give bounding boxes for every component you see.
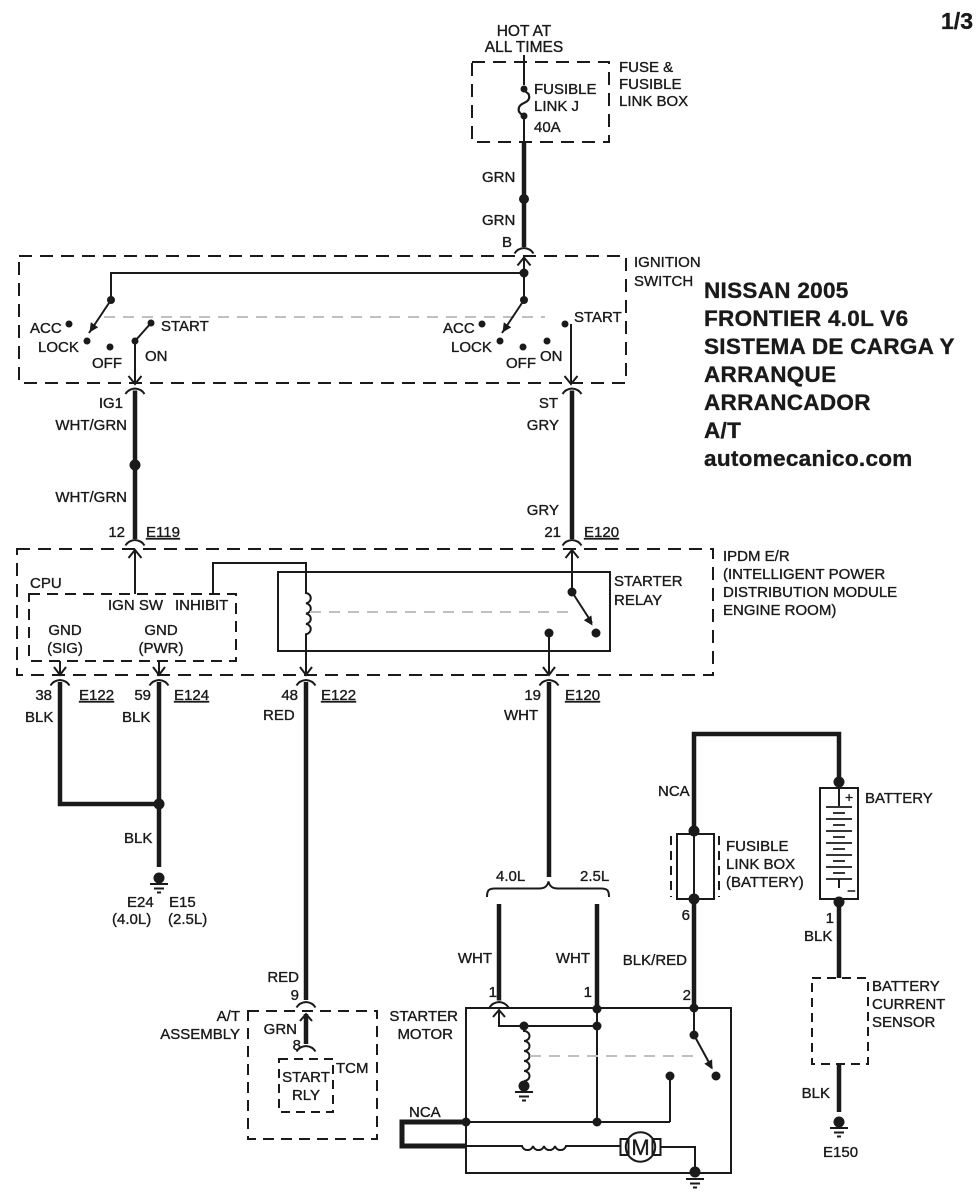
wire BLK battery to sensor <box>837 902 842 978</box>
battery current sensor box <box>812 978 868 1064</box>
svg-text:GND: GND <box>144 622 178 639</box>
svg-text:CURRENT: CURRENT <box>872 996 945 1013</box>
svg-text:ASSEMBLY: ASSEMBLY <box>160 1026 240 1043</box>
node LOCK right <box>497 338 504 345</box>
fuse box FUSE & FUSIBLE LINK BOX <box>472 62 609 142</box>
node OFF right <box>520 344 527 351</box>
wire fusible link to box edge <box>523 119 525 142</box>
starter relay box <box>278 572 610 651</box>
svg-text:21: 21 <box>544 524 561 541</box>
svg-text:DISTRIBUTION MODULE: DISTRIBUTION MODULE <box>723 584 897 601</box>
starter motor box <box>466 1008 731 1173</box>
junction solenoid feed <box>520 1022 529 1031</box>
wire BLK/RED <box>692 899 697 1008</box>
svg-text:A/T: A/T <box>217 1008 240 1025</box>
svg-text:FUSIBLE: FUSIBLE <box>534 81 597 98</box>
svg-text:STARTER: STARTER <box>614 573 683 590</box>
node HOT AT ALL TIMES <box>485 23 563 56</box>
svg-text:ACC: ACC <box>443 320 475 337</box>
svg-text:19: 19 <box>524 687 541 704</box>
svg-text:LOCK: LOCK <box>451 339 492 356</box>
svg-text:FUSE &: FUSE & <box>619 59 673 76</box>
svg-text:SENSOR: SENSOR <box>872 1014 936 1031</box>
svg-text:E124: E124 <box>174 687 209 704</box>
wire WHT 2.5L branch <box>595 904 600 1008</box>
pin 38 connector E122 <box>51 680 70 686</box>
svg-text:E120: E120 <box>565 687 600 704</box>
svg-text:1: 1 <box>584 984 592 1001</box>
wire GND SIG to pin 38 <box>59 661 61 674</box>
wire WHT 4.0L branch <box>497 904 502 1001</box>
svg-text:4.0L: 4.0L <box>496 868 525 885</box>
svg-text:GRN: GRN <box>264 1021 297 1038</box>
svg-text:1: 1 <box>489 984 497 1001</box>
relay switch <box>568 588 577 597</box>
junction at fusible link box <box>689 826 700 837</box>
TCM box <box>279 1059 333 1112</box>
svg-text:BATTERY: BATTERY <box>872 978 940 995</box>
svg-text:48: 48 <box>281 687 298 704</box>
wire to 2.5L branch <box>524 1025 597 1027</box>
junction BLK wires <box>154 799 165 810</box>
svg-text:E122: E122 <box>321 687 356 704</box>
left switch IG1 contact link <box>135 323 151 341</box>
svg-text:40A: 40A <box>534 119 561 136</box>
svg-text:LINK BOX: LINK BOX <box>619 93 688 110</box>
svg-text:OFF: OFF <box>506 355 536 372</box>
A/T assembly box <box>248 1011 377 1139</box>
svg-text:FRONTIER 4.0L V6: FRONTIER 4.0L V6 <box>704 306 908 331</box>
svg-text:NISSAN 2005: NISSAN 2005 <box>704 278 849 303</box>
wire relay coil to pin 48 <box>305 651 307 674</box>
svg-text:WHT: WHT <box>556 950 590 967</box>
solenoid ground <box>519 1081 530 1092</box>
svg-text:(INTELLIGENT POWER: (INTELLIGENT POWER <box>723 566 885 583</box>
svg-text:FUSIBLE: FUSIBLE <box>619 76 682 93</box>
junction on GRN wire <box>519 194 529 204</box>
wire motor bus <box>466 1121 670 1123</box>
svg-text:STARTER: STARTER <box>389 1008 458 1025</box>
svg-text:12: 12 <box>108 524 125 541</box>
svg-text:E120: E120 <box>584 524 619 541</box>
svg-text:LOCK: LOCK <box>38 339 79 356</box>
CPU box <box>29 594 236 661</box>
motor M <box>626 1132 655 1161</box>
svg-text:GRN: GRN <box>482 169 515 186</box>
brace 4.0L / 2.5L <box>487 882 609 898</box>
wire GRN fuse box to B <box>522 142 527 247</box>
svg-text:M: M <box>631 1135 649 1160</box>
svg-text:ALL TIMES: ALL TIMES <box>485 39 563 56</box>
node ACC right <box>479 321 486 328</box>
svg-text:2.5L: 2.5L <box>580 868 609 885</box>
wire motor to ground <box>661 1147 696 1173</box>
svg-text:A/T: A/T <box>704 418 741 443</box>
mechanical link relay <box>310 611 574 613</box>
svg-text:automecanico.com: automecanico.com <box>704 446 913 471</box>
left ignition switch pivot <box>107 296 115 304</box>
connector IG1 out of ignition switch <box>126 389 145 395</box>
svg-text:OFF: OFF <box>92 355 122 372</box>
svg-text:SWITCH: SWITCH <box>634 273 693 290</box>
node ON left <box>132 338 139 345</box>
svg-text:38: 38 <box>35 687 52 704</box>
svg-text:MOTOR: MOTOR <box>397 1026 453 1043</box>
svg-text:START: START <box>574 309 622 326</box>
node ACC left <box>66 321 73 328</box>
svg-text:IGN SW: IGN SW <box>108 597 164 614</box>
svg-text:WHT: WHT <box>458 950 492 967</box>
relay output contact <box>545 629 554 638</box>
starter switch output contact <box>666 1072 675 1081</box>
svg-text:E119: E119 <box>146 524 180 541</box>
svg-text:ON: ON <box>540 348 563 365</box>
svg-text:BLK: BLK <box>122 709 150 726</box>
ignition switch box <box>19 256 626 383</box>
starter switch <box>693 1008 695 1035</box>
wire GRY <box>570 391 575 540</box>
svg-text:IPDM E/R: IPDM E/R <box>723 548 790 565</box>
wire into fuse box <box>523 55 525 85</box>
svg-text:(SIG): (SIG) <box>47 640 83 657</box>
svg-text:6: 6 <box>682 907 690 924</box>
svg-text:IG1: IG1 <box>99 395 123 412</box>
pin 8 connector TCM <box>297 1046 316 1052</box>
svg-text:BLK/RED: BLK/RED <box>623 952 687 969</box>
svg-text:RED: RED <box>267 969 299 986</box>
field winding inductor <box>466 1146 621 1150</box>
svg-text:−: − <box>847 883 856 900</box>
title block <box>704 278 955 471</box>
wire RED pin 48 to pin 9 <box>304 682 309 1000</box>
svg-text:E150: E150 <box>823 1144 858 1161</box>
svg-text:ACC: ACC <box>30 320 62 337</box>
wire BLK sensor to ground <box>837 1064 842 1112</box>
svg-text:E122: E122 <box>79 687 114 704</box>
svg-text:E15: E15 <box>169 894 196 911</box>
pin 9 connector <box>297 1002 316 1008</box>
svg-text:TCM: TCM <box>336 1060 369 1077</box>
svg-text:START: START <box>161 318 209 335</box>
pin 59 connector E124 <box>150 680 169 686</box>
IPDM E/R box <box>17 549 713 675</box>
svg-text:RED: RED <box>263 707 295 724</box>
wire START to ST out <box>570 324 572 382</box>
wire B bus to left switch <box>111 273 524 300</box>
node START right <box>562 321 569 328</box>
junction 2.5L wire at box edge <box>593 1005 602 1014</box>
pin 19 connector E120 <box>540 680 559 686</box>
left switch lever to LOCK <box>89 300 111 333</box>
connector ST out of ignition switch <box>563 389 582 395</box>
ground E150 <box>834 1117 845 1128</box>
pin 1 connector 4.0L <box>490 1002 509 1008</box>
wire GRN pin 9 to 8 <box>304 1014 309 1044</box>
svg-text:(4.0L): (4.0L) <box>112 911 151 928</box>
wire ON to IG1 out <box>134 344 136 382</box>
fusible link box battery <box>677 834 714 899</box>
junction pin 6 <box>689 894 700 905</box>
node OFF left <box>107 344 114 351</box>
svg-text:BATTERY: BATTERY <box>865 790 933 807</box>
svg-text:ON: ON <box>145 348 168 365</box>
svg-text:RELAY: RELAY <box>614 592 662 609</box>
node START left <box>148 320 155 327</box>
svg-text:NCA: NCA <box>409 1104 441 1121</box>
svg-text:E24: E24 <box>127 894 154 911</box>
svg-text:LINK BOX: LINK BOX <box>726 856 795 873</box>
svg-text:HOT AT: HOT AT <box>497 23 552 40</box>
ground E24/E15 <box>154 873 165 884</box>
svg-text:LINK J: LINK J <box>534 98 579 115</box>
svg-text:SISTEMA DE CARGA Y: SISTEMA DE CARGA Y <box>704 334 955 359</box>
pin 48 connector E122 <box>297 680 316 686</box>
svg-text:(PWR): (PWR) <box>139 640 184 657</box>
wire BLK pin 59 <box>157 682 162 867</box>
wire BLK pin 38 <box>60 682 157 804</box>
wire NCA loop <box>402 1122 466 1146</box>
wire through fusible link box <box>693 831 695 899</box>
svg-text:+: + <box>845 789 853 805</box>
wire NCA top to battery <box>694 734 839 831</box>
svg-text:ARRANCADOR: ARRANCADOR <box>704 390 871 415</box>
svg-text:GRY: GRY <box>527 417 559 434</box>
svg-text:INHIBIT: INHIBIT <box>175 597 228 614</box>
pin 12 connector E119 <box>108 524 180 541</box>
svg-text:ST: ST <box>539 395 558 412</box>
battery <box>834 777 845 788</box>
wire GND PWR to pin 59 <box>158 661 160 674</box>
right ignition switch pivot <box>520 296 528 304</box>
svg-text:BLK: BLK <box>802 1085 830 1102</box>
svg-text:NCA: NCA <box>658 783 690 800</box>
wire 2.5L branch through box <box>596 1008 598 1122</box>
svg-text:BLK: BLK <box>124 830 152 847</box>
svg-text:ARRANQUE: ARRANQUE <box>704 362 836 387</box>
svg-text:9: 9 <box>291 987 299 1004</box>
solenoid coil <box>524 1026 530 1081</box>
battery minus junction <box>834 897 845 908</box>
svg-text:1/3: 1/3 <box>941 8 973 34</box>
svg-text:BLK: BLK <box>25 709 53 726</box>
mechanical link ignition switches <box>104 316 545 318</box>
svg-text:GRN: GRN <box>482 212 515 229</box>
svg-text:ENGINE ROOM): ENGINE ROOM) <box>723 602 836 619</box>
svg-text:B: B <box>502 234 512 251</box>
svg-text:WHT: WHT <box>504 707 538 724</box>
svg-text:WHT/GRN: WHT/GRN <box>55 489 127 506</box>
junction BLK/RED at box edge <box>690 1004 699 1013</box>
mechanical link solenoid to switch <box>530 1055 700 1057</box>
wire WHT/GRN <box>133 391 138 540</box>
fusible link J 40A <box>521 86 528 93</box>
svg-text:BLK: BLK <box>804 928 832 945</box>
svg-text:START: START <box>282 1069 330 1086</box>
node ON right <box>544 338 551 345</box>
wire INHIBIT to relay coil <box>213 563 306 594</box>
wire WHT pin 19 <box>547 682 552 877</box>
svg-text:FUSIBLE: FUSIBLE <box>726 838 789 855</box>
junction on WHT/GRN wire <box>130 460 141 471</box>
right switch lever to LOCK <box>502 300 524 333</box>
svg-text:RLY: RLY <box>292 1087 320 1104</box>
svg-text:WHT/GRN: WHT/GRN <box>55 417 127 434</box>
svg-text:GRY: GRY <box>527 502 559 519</box>
svg-text:59: 59 <box>134 687 151 704</box>
relay coil <box>306 586 311 651</box>
motor ground <box>690 1167 701 1178</box>
svg-text:CPU: CPU <box>30 575 62 592</box>
svg-text:GND: GND <box>48 622 82 639</box>
node LOCK left <box>84 338 91 345</box>
pin 21 connector E120 <box>544 524 619 541</box>
svg-text:IGNITION: IGNITION <box>634 254 701 271</box>
svg-text:1: 1 <box>826 910 834 927</box>
connector B into ignition switch <box>515 248 534 254</box>
wire B bus to right switch <box>520 269 529 278</box>
svg-text:(BATTERY): (BATTERY) <box>726 874 804 891</box>
svg-text:2: 2 <box>683 987 691 1004</box>
svg-text:(2.5L): (2.5L) <box>168 911 207 928</box>
